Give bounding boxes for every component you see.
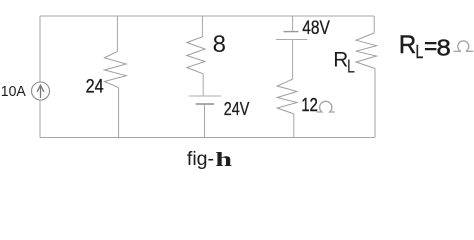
svg-text:12: 12 [301,95,317,115]
svg-text:h: h [215,149,232,171]
svg-text:L: L [347,57,355,77]
svg-text:R: R [399,31,416,59]
svg-text:8: 8 [213,31,226,58]
svg-text:L: L [416,41,424,62]
svg-text:24V: 24V [224,98,250,119]
svg-text:fig-: fig- [187,149,214,170]
svg-text:=: = [424,33,437,60]
svg-text:10A: 10A [1,84,26,100]
svg-text:48V: 48V [302,18,330,39]
svg-text:8: 8 [437,34,451,60]
svg-text:24: 24 [86,76,104,98]
